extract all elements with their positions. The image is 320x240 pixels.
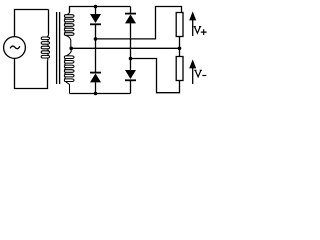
- wire top left: [15, 10, 49, 37]
- wire center tap to common node: [71, 47, 179, 49]
- label V-: [194, 70, 202, 77]
- diode D3 cathode bar: [90, 72, 101, 74]
- diode D4 cathode bar: [125, 79, 136, 81]
- diode D4: [125, 70, 136, 79]
- diode D1: [90, 14, 101, 23]
- wire D2 cathode lead: [130, 7, 132, 14]
- wire D4 cathode lead: [130, 81, 132, 94]
- resistor load R2: [176, 57, 183, 81]
- diode D1 cathode bar: [90, 23, 101, 25]
- transformer core: [57, 12, 60, 84]
- wire bottom left: [15, 58, 48, 88]
- arrowhead V-: [189, 59, 196, 68]
- node center tap junction: [69, 47, 73, 51]
- diode D2: [125, 14, 136, 23]
- wire primary top stem: [48, 10, 50, 34]
- wire V+ rail: [96, 7, 182, 39]
- transformer T1 secondary upper winding: [64, 12, 74, 48]
- node V- junction: [129, 57, 133, 61]
- wire right column middle: [130, 23, 132, 70]
- arrow V+: [192, 20, 194, 37]
- arrowhead V+: [189, 11, 196, 20]
- AC source V1: [4, 37, 26, 59]
- resistor load R1: [176, 13, 183, 37]
- transformer T1 secondary lower winding: [64, 48, 74, 93]
- node junction bottom rail: [94, 92, 98, 96]
- diode D3: [90, 73, 101, 82]
- node V+ junction: [94, 37, 98, 41]
- transformer T1 primary winding: [41, 34, 49, 61]
- wire left column middle: [95, 25, 97, 72]
- label V+: [194, 27, 202, 34]
- diode D2 cathode bar: [125, 13, 136, 15]
- wire common stem: [179, 37, 181, 57]
- wire secondary top lead: [70, 7, 131, 13]
- wire V- rail: [131, 59, 180, 93]
- wire D3 anode lead: [95, 82, 97, 93]
- AC sine symbol: [10, 46, 20, 49]
- node junction top rail: [94, 5, 98, 9]
- arrow V-: [192, 68, 194, 85]
- wire bottom rail: [70, 93, 131, 95]
- node common junction: [178, 47, 182, 51]
- wire D1 anode lead: [95, 7, 97, 15]
